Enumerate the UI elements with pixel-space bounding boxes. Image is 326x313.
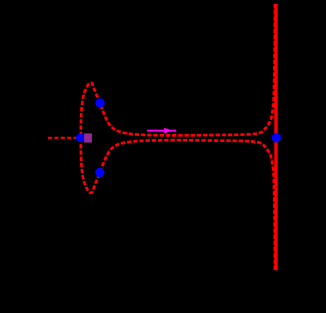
wire: left real-axis dashed segment xyxy=(48,137,80,139)
wire: dashed locus curve xyxy=(81,4,275,270)
node D: blue point on asymptote xyxy=(272,133,281,142)
node F: magenta arrow head xyxy=(164,128,172,134)
node A: blue point on left arc xyxy=(76,133,85,142)
node E: purple square marker xyxy=(84,133,92,142)
asymptote vertical line xyxy=(274,4,277,270)
node B: blue point upper xyxy=(95,98,104,107)
node C: blue point lower xyxy=(95,168,104,177)
wire: magenta arrow shaft xyxy=(147,130,176,132)
